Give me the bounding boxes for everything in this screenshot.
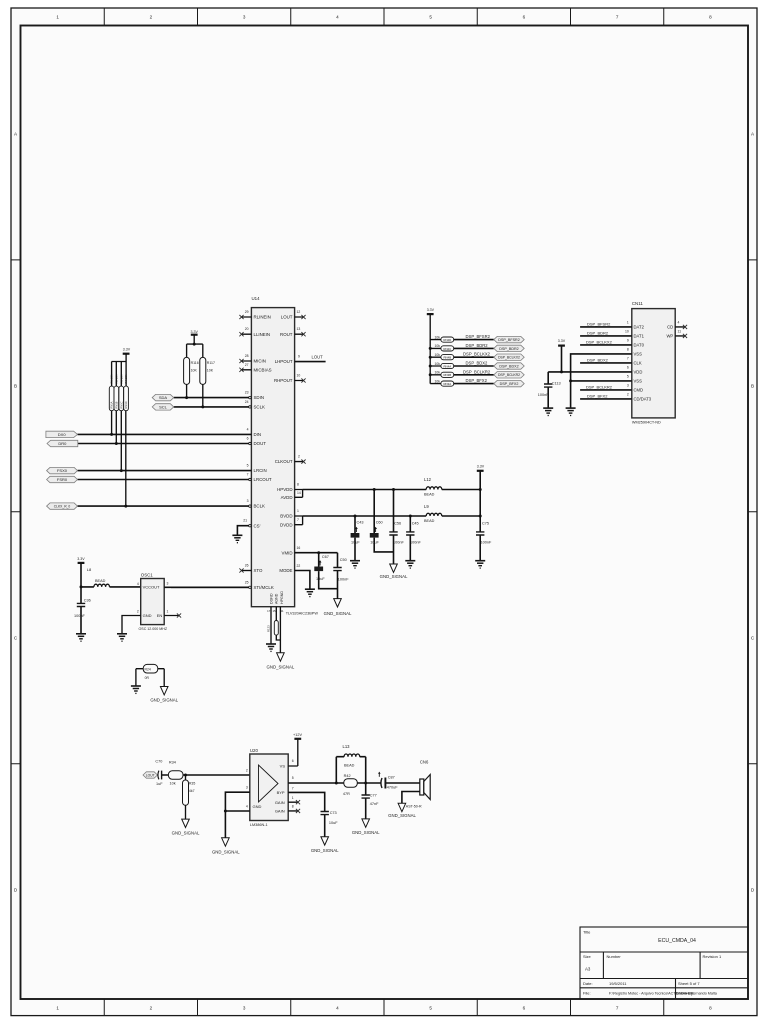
svg-text:L12: L12 bbox=[424, 477, 432, 482]
svg-text:3.3V: 3.3V bbox=[558, 339, 566, 343]
svg-text:VCCOUT: VCCOUT bbox=[143, 585, 160, 590]
svg-text:RN1B: RN1B bbox=[114, 401, 118, 408]
svg-text:GND_SIGNAL: GND_SIGNAL bbox=[267, 664, 295, 669]
svg-text:BEAD: BEAD bbox=[424, 519, 435, 523]
svg-text:DSP_BFX2: DSP_BFX2 bbox=[466, 378, 488, 383]
svg-text:VDD: VDD bbox=[634, 370, 643, 375]
svg-text:DIN: DIN bbox=[254, 432, 262, 437]
svg-text:XTI/MCLK: XTI/MCLK bbox=[254, 585, 274, 590]
svg-text:7: 7 bbox=[292, 786, 294, 790]
svg-text:DAT1: DAT1 bbox=[634, 334, 645, 339]
svg-text:10: 10 bbox=[297, 374, 301, 378]
svg-text:DX0: DX0 bbox=[58, 432, 67, 437]
svg-text:17: 17 bbox=[267, 609, 271, 613]
svg-text:GND_SIGNAL: GND_SIGNAL bbox=[150, 697, 178, 702]
svg-text:5: 5 bbox=[292, 776, 294, 780]
svg-text:5: 5 bbox=[247, 464, 249, 468]
svg-text:R24: R24 bbox=[145, 668, 151, 672]
svg-text:DOUT: DOUT bbox=[254, 441, 267, 446]
svg-text:29: 29 bbox=[245, 310, 249, 314]
svg-text:3.3V: 3.3V bbox=[123, 347, 131, 351]
svg-text:WP: WP bbox=[666, 334, 673, 339]
svg-text:1uF: 1uF bbox=[156, 782, 163, 786]
svg-text:47R: 47R bbox=[343, 792, 350, 796]
svg-text:7: 7 bbox=[616, 1005, 619, 1010]
svg-text:8: 8 bbox=[627, 348, 629, 352]
svg-text:DSP_BCLKX2: DSP_BCLKX2 bbox=[498, 356, 520, 360]
svg-text:AST-50-R: AST-50-R bbox=[406, 804, 422, 808]
svg-text:10k: 10k bbox=[170, 782, 176, 786]
svg-text:B: B bbox=[751, 383, 754, 388]
svg-text:GND_SIGNAL: GND_SIGNAL bbox=[380, 574, 408, 579]
svg-text:VSS: VSS bbox=[634, 379, 643, 384]
svg-text:ROUT: ROUT bbox=[280, 332, 293, 337]
svg-text:C73: C73 bbox=[330, 811, 337, 815]
svg-text:10k: 10k bbox=[435, 335, 441, 339]
svg-text:R34: R34 bbox=[169, 761, 176, 765]
svg-text:6: 6 bbox=[292, 759, 294, 763]
svg-text:TLV320AIC23BPW: TLV320AIC23BPW bbox=[286, 612, 319, 616]
svg-text:C77: C77 bbox=[370, 794, 377, 798]
svg-text:L13: L13 bbox=[343, 744, 351, 749]
svg-text:R117: R117 bbox=[207, 361, 215, 365]
svg-text:24: 24 bbox=[245, 400, 249, 404]
svg-text:3: 3 bbox=[247, 499, 249, 503]
svg-text:Fernando Malta: Fernando Malta bbox=[691, 992, 718, 996]
svg-text:2: 2 bbox=[627, 393, 629, 397]
svg-text:DSP_BFSR2: DSP_BFSR2 bbox=[498, 338, 520, 342]
svg-text:3: 3 bbox=[627, 384, 629, 388]
svg-text:6: 6 bbox=[523, 1005, 526, 1010]
svg-text:8: 8 bbox=[709, 1005, 712, 1010]
svg-text:DR0: DR0 bbox=[58, 441, 67, 446]
svg-text:C56: C56 bbox=[394, 522, 401, 526]
svg-text:R4 10K: R4 10K bbox=[124, 374, 128, 383]
svg-text:C75: C75 bbox=[482, 522, 489, 526]
svg-text:100nF: 100nF bbox=[393, 541, 404, 545]
svg-text:10uF: 10uF bbox=[329, 821, 338, 825]
svg-text:4: 4 bbox=[246, 805, 248, 809]
svg-text:9: 9 bbox=[298, 355, 300, 359]
svg-text:100nF: 100nF bbox=[338, 577, 349, 581]
svg-text:10k: 10k bbox=[435, 371, 441, 375]
svg-text:10k: 10k bbox=[435, 353, 441, 357]
svg-text:DSP_BDX2: DSP_BDX2 bbox=[466, 361, 489, 366]
svg-text:CD: CD bbox=[667, 325, 673, 330]
svg-text:B: B bbox=[14, 383, 17, 388]
svg-text:U20: U20 bbox=[250, 748, 259, 753]
svg-text:R123: R123 bbox=[266, 625, 270, 632]
svg-text:1: 1 bbox=[56, 1005, 59, 1010]
svg-text:FSX0: FSX0 bbox=[57, 468, 68, 473]
svg-text:DSP_BCLKX2: DSP_BCLKX2 bbox=[586, 339, 613, 344]
svg-text:C43: C43 bbox=[357, 520, 364, 524]
svg-text:XTO: XTO bbox=[254, 568, 264, 573]
svg-text:3.3V: 3.3V bbox=[427, 308, 435, 312]
svg-text:RHPOUT: RHPOUT bbox=[274, 378, 293, 383]
svg-text:4: 4 bbox=[336, 1005, 339, 1010]
svg-text:FSR0: FSR0 bbox=[57, 477, 68, 482]
svg-text:10uF: 10uF bbox=[351, 541, 360, 545]
svg-text:DSP_BDX2: DSP_BDX2 bbox=[587, 357, 609, 362]
svg-text:C70: C70 bbox=[155, 760, 162, 764]
svg-text:7: 7 bbox=[616, 15, 619, 20]
svg-text:DSP_BCLKX2: DSP_BCLKX2 bbox=[463, 352, 491, 357]
svg-text:LM386N-1: LM386N-1 bbox=[250, 823, 268, 827]
svg-text:10K: 10K bbox=[191, 369, 198, 373]
svg-text:GAIN: GAIN bbox=[275, 800, 285, 805]
svg-text:3: 3 bbox=[246, 786, 248, 790]
svg-text:DSP_BFSR2: DSP_BFSR2 bbox=[587, 321, 611, 326]
svg-text:6: 6 bbox=[627, 366, 629, 370]
svg-text:HPGND: HPGND bbox=[280, 591, 284, 604]
svg-text:3: 3 bbox=[243, 1005, 246, 1010]
svg-text:SDA: SDA bbox=[159, 395, 168, 400]
svg-text:RLINEIN: RLINEIN bbox=[254, 315, 271, 320]
svg-text:Number: Number bbox=[607, 954, 622, 959]
svg-text:BVDD: BVDD bbox=[280, 514, 292, 519]
svg-text:4: 4 bbox=[247, 427, 249, 431]
svg-text:C87: C87 bbox=[388, 776, 395, 780]
svg-text:DSP_BFX2: DSP_BFX2 bbox=[500, 382, 519, 386]
svg-text:47nF: 47nF bbox=[370, 802, 379, 806]
svg-text:MICBIAS: MICBIAS bbox=[254, 367, 272, 372]
svg-text:C45: C45 bbox=[412, 522, 419, 526]
svg-text:R3 10K: R3 10K bbox=[119, 374, 123, 383]
svg-text:RN4A: RN4A bbox=[443, 364, 451, 368]
svg-text:14: 14 bbox=[297, 491, 301, 495]
svg-text:CMD: CMD bbox=[634, 388, 644, 393]
svg-text:VSS: VSS bbox=[634, 352, 643, 357]
svg-text:DSP_BFSR2: DSP_BFSR2 bbox=[466, 334, 491, 339]
svg-text:GND: GND bbox=[253, 804, 262, 809]
svg-text:AVDD: AVDD bbox=[281, 495, 293, 500]
svg-text:1: 1 bbox=[167, 610, 169, 614]
svg-text:A3: A3 bbox=[585, 967, 591, 972]
svg-text:15: 15 bbox=[272, 609, 276, 613]
svg-text:LLINEIN: LLINEIN bbox=[254, 332, 271, 337]
svg-text:3: 3 bbox=[243, 15, 246, 20]
svg-text:2: 2 bbox=[246, 769, 248, 773]
svg-text:DSP_BCLKR2: DSP_BCLKR2 bbox=[498, 373, 520, 377]
svg-text:10k: 10k bbox=[435, 344, 441, 348]
svg-text:Revision 1: Revision 1 bbox=[703, 954, 722, 959]
svg-text:20: 20 bbox=[245, 327, 249, 331]
svg-text:4: 4 bbox=[137, 582, 139, 586]
svg-text:L9: L9 bbox=[424, 504, 429, 509]
svg-text:2: 2 bbox=[150, 15, 153, 20]
svg-text:MICIN: MICIN bbox=[254, 359, 266, 364]
svg-text:RN4B: RN4B bbox=[443, 356, 451, 360]
svg-text:CLKOUT: CLKOUT bbox=[275, 459, 293, 464]
svg-text:U14: U14 bbox=[252, 296, 261, 301]
svg-text:22: 22 bbox=[297, 564, 301, 568]
svg-text:CN6: CN6 bbox=[420, 759, 429, 764]
svg-text:C67: C67 bbox=[322, 555, 329, 559]
svg-text:6: 6 bbox=[523, 15, 526, 20]
svg-text:GND_SIGNAL: GND_SIGNAL bbox=[352, 830, 380, 835]
svg-text:LHPOUT: LHPOUT bbox=[275, 359, 293, 364]
svg-text:Size: Size bbox=[583, 954, 592, 959]
svg-text:GND_SIGNAL: GND_SIGNAL bbox=[212, 850, 240, 855]
svg-text:DSP_BCLKR2: DSP_BCLKR2 bbox=[463, 369, 491, 374]
svg-text:AGND: AGND bbox=[275, 593, 279, 604]
svg-text:SCLK: SCLK bbox=[254, 405, 266, 410]
svg-text:RN3B: RN3B bbox=[443, 373, 451, 377]
svg-text:1: 1 bbox=[627, 321, 629, 325]
svg-text:100nF: 100nF bbox=[538, 393, 549, 397]
svg-text:LRCOUT: LRCOUT bbox=[254, 477, 272, 482]
svg-text:EN: EN bbox=[157, 613, 163, 618]
svg-text:CN11: CN11 bbox=[632, 301, 643, 306]
svg-text:WM25904CT-ND: WM25904CT-ND bbox=[632, 421, 661, 425]
svg-text:LOUT: LOUT bbox=[281, 315, 293, 320]
svg-text:26: 26 bbox=[245, 564, 249, 568]
svg-text:OSC1: OSC1 bbox=[141, 573, 154, 578]
svg-text:7: 7 bbox=[627, 357, 629, 361]
svg-text:DSP_BDR2: DSP_BDR2 bbox=[587, 330, 609, 335]
svg-text:Date:: Date: bbox=[583, 981, 593, 986]
svg-text:BEAD: BEAD bbox=[424, 493, 435, 497]
svg-text:4: 4 bbox=[678, 320, 680, 324]
svg-text:SCL: SCL bbox=[159, 405, 168, 410]
svg-text:5: 5 bbox=[429, 15, 432, 20]
svg-text:RN1A: RN1A bbox=[110, 401, 114, 408]
svg-text:DAT0: DAT0 bbox=[634, 343, 645, 348]
svg-text:16: 16 bbox=[297, 546, 301, 550]
svg-text:DSP_BFX2: DSP_BFX2 bbox=[587, 393, 608, 398]
svg-text:100nF: 100nF bbox=[74, 614, 85, 618]
svg-text:C36: C36 bbox=[84, 599, 91, 603]
svg-text:L8: L8 bbox=[87, 567, 92, 572]
svg-text:BYP: BYP bbox=[277, 790, 285, 795]
svg-text:12: 12 bbox=[297, 310, 301, 314]
svg-text:MODE: MODE bbox=[279, 568, 292, 573]
svg-text:2: 2 bbox=[150, 1005, 153, 1010]
svg-text:BEAD: BEAD bbox=[344, 764, 355, 768]
svg-text:RN3A: RN3A bbox=[443, 382, 451, 386]
svg-text:10: 10 bbox=[625, 330, 629, 334]
svg-text:DGND: DGND bbox=[269, 593, 273, 604]
svg-text:GND_SIGNAL: GND_SIGNAL bbox=[311, 848, 339, 853]
svg-text:5: 5 bbox=[627, 375, 629, 379]
svg-text:1: 1 bbox=[297, 509, 299, 513]
svg-text:7: 7 bbox=[247, 473, 249, 477]
svg-text:GAIN: GAIN bbox=[275, 809, 285, 814]
svg-text:LRCIN: LRCIN bbox=[254, 468, 267, 473]
svg-text:2: 2 bbox=[298, 455, 300, 459]
svg-text:23: 23 bbox=[245, 391, 249, 395]
svg-text:5: 5 bbox=[429, 1005, 432, 1010]
svg-text:0R: 0R bbox=[145, 676, 150, 680]
svg-text:GND: GND bbox=[143, 613, 152, 618]
svg-text:RN1C: RN1C bbox=[119, 401, 123, 408]
svg-text:100nF: 100nF bbox=[410, 541, 421, 545]
svg-text:4: 4 bbox=[336, 15, 339, 20]
svg-text:10uF: 10uF bbox=[316, 577, 325, 581]
svg-text:8: 8 bbox=[709, 15, 712, 20]
svg-text:8: 8 bbox=[297, 483, 299, 487]
svg-text:9: 9 bbox=[627, 339, 629, 343]
svg-text:R35: R35 bbox=[189, 781, 195, 785]
svg-text:GND_SIGNAL: GND_SIGNAL bbox=[388, 813, 416, 818]
svg-text:10uF: 10uF bbox=[370, 541, 379, 545]
svg-text:3.3V: 3.3V bbox=[190, 330, 198, 334]
svg-text:1: 1 bbox=[292, 796, 294, 800]
svg-text:7: 7 bbox=[297, 518, 299, 522]
svg-text:SDIN: SDIN bbox=[254, 395, 265, 400]
svg-text:OSC 12.000 MHZ: OSC 12.000 MHZ bbox=[139, 627, 168, 631]
svg-text:ECU_CMDA_04: ECU_CMDA_04 bbox=[658, 938, 696, 944]
svg-text:3.3V: 3.3V bbox=[77, 557, 85, 561]
svg-text:C50: C50 bbox=[340, 558, 347, 562]
svg-text:25: 25 bbox=[245, 580, 249, 584]
svg-text:LOUT: LOUT bbox=[312, 354, 324, 359]
svg-text:DSP_BDR2: DSP_BDR2 bbox=[466, 343, 489, 348]
svg-text:27: 27 bbox=[245, 363, 249, 367]
svg-text:BCLK: BCLK bbox=[254, 504, 266, 509]
svg-text:GND_SIGNAL: GND_SIGNAL bbox=[324, 611, 352, 616]
svg-text:CLKX_R_0: CLKX_R_0 bbox=[54, 505, 71, 509]
svg-text:File:: File: bbox=[583, 991, 591, 996]
svg-text:C113: C113 bbox=[552, 382, 561, 386]
svg-text:RN4D: RN4D bbox=[443, 338, 451, 342]
svg-text:+12V: +12V bbox=[293, 733, 302, 737]
svg-text:11: 11 bbox=[281, 609, 284, 613]
svg-text:13: 13 bbox=[297, 327, 301, 331]
svg-text:3: 3 bbox=[167, 581, 169, 585]
svg-text:RN4C: RN4C bbox=[443, 347, 451, 351]
svg-text:CS': CS' bbox=[254, 523, 261, 528]
svg-text:8: 8 bbox=[292, 805, 294, 809]
svg-text:11: 11 bbox=[678, 329, 682, 333]
svg-text:RN1D: RN1D bbox=[124, 401, 128, 408]
svg-text:R42: R42 bbox=[344, 774, 351, 778]
svg-text:R1 10K: R1 10K bbox=[110, 374, 114, 383]
svg-text:HPVDD: HPVDD bbox=[277, 487, 292, 492]
svg-text:GND_SIGNAL: GND_SIGNAL bbox=[172, 830, 200, 835]
svg-text:R116: R116 bbox=[191, 361, 199, 365]
svg-text:3.3V: 3.3V bbox=[477, 465, 485, 469]
svg-text:LOUT: LOUT bbox=[146, 774, 155, 778]
svg-text:19/5/2011: 19/5/2011 bbox=[609, 981, 627, 986]
svg-text:DAT2: DAT2 bbox=[634, 325, 645, 330]
svg-text:R2 10K: R2 10K bbox=[114, 374, 118, 383]
svg-text:10k: 10k bbox=[435, 362, 441, 366]
svg-text:DSP_BDR2: DSP_BDR2 bbox=[499, 347, 518, 351]
svg-text:VS: VS bbox=[280, 764, 286, 769]
svg-text:VMID: VMID bbox=[282, 550, 293, 555]
svg-text:100nF: 100nF bbox=[481, 541, 492, 545]
svg-text:Title: Title bbox=[583, 930, 591, 935]
svg-text:CLK: CLK bbox=[634, 361, 642, 366]
svg-text:Sheet 5 of 7: Sheet 5 of 7 bbox=[678, 981, 700, 986]
svg-text:2: 2 bbox=[137, 610, 139, 614]
svg-text:28: 28 bbox=[245, 354, 249, 358]
svg-text:CD/DAT3: CD/DAT3 bbox=[634, 397, 652, 402]
svg-text:BEAD: BEAD bbox=[95, 579, 106, 583]
svg-text:10K: 10K bbox=[207, 369, 214, 373]
svg-text:C60: C60 bbox=[376, 520, 383, 524]
svg-text:DSP_BCLKR2: DSP_BCLKR2 bbox=[586, 384, 613, 389]
svg-text:DSP_BDX2: DSP_BDX2 bbox=[499, 364, 518, 368]
svg-text:4k7: 4k7 bbox=[189, 789, 195, 793]
svg-text:1: 1 bbox=[56, 15, 59, 20]
svg-text:10k: 10k bbox=[435, 379, 441, 383]
svg-text:21: 21 bbox=[243, 519, 247, 523]
svg-text:6: 6 bbox=[247, 437, 249, 441]
svg-text:DVDD: DVDD bbox=[280, 522, 292, 527]
svg-text:470uF: 470uF bbox=[387, 786, 398, 790]
